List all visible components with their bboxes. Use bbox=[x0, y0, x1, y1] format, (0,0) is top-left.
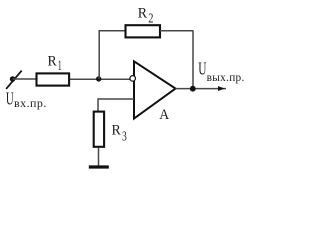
inverting input circle bbox=[130, 76, 136, 82]
svg-text:R: R bbox=[48, 54, 57, 70]
input terminal dot bbox=[10, 76, 16, 82]
resistor R2 bbox=[126, 25, 161, 37]
wire R1 to inverting input bbox=[70, 78, 131, 80]
svg-text:3: 3 bbox=[122, 129, 127, 144]
wire feedback left vertical bbox=[98, 31, 100, 80]
svg-text:R: R bbox=[138, 5, 147, 21]
svg-text:U: U bbox=[6, 88, 14, 108]
wire non-inverting input bbox=[98, 99, 134, 111]
svg-text:вых.пр.: вых.пр. bbox=[207, 72, 245, 84]
resistor R1 bbox=[37, 73, 70, 85]
svg-text:вх.пр.: вх.пр. bbox=[14, 96, 47, 110]
output node dot bbox=[190, 86, 196, 92]
wire R3 to ground bbox=[98, 148, 100, 167]
resistor R3 bbox=[94, 112, 104, 147]
wire R2 to right vertical bbox=[160, 30, 194, 32]
wire output bbox=[176, 88, 227, 90]
output arrowhead bbox=[218, 86, 225, 91]
ground bbox=[89, 165, 109, 168]
wire input to R1 bbox=[13, 78, 36, 80]
svg-text:U: U bbox=[198, 58, 206, 78]
svg-text:R: R bbox=[112, 123, 121, 139]
input terminal slash bbox=[6, 71, 22, 89]
svg-text:A: A bbox=[159, 107, 169, 123]
wire feedback right vertical bbox=[192, 31, 194, 89]
op-amp U1 triangle bbox=[134, 61, 176, 118]
svg-text:1: 1 bbox=[58, 58, 62, 74]
svg-text:2: 2 bbox=[148, 12, 153, 27]
wire feedback left horizontal to R2 bbox=[99, 30, 126, 32]
node at R1/feedback junction bbox=[96, 76, 101, 81]
